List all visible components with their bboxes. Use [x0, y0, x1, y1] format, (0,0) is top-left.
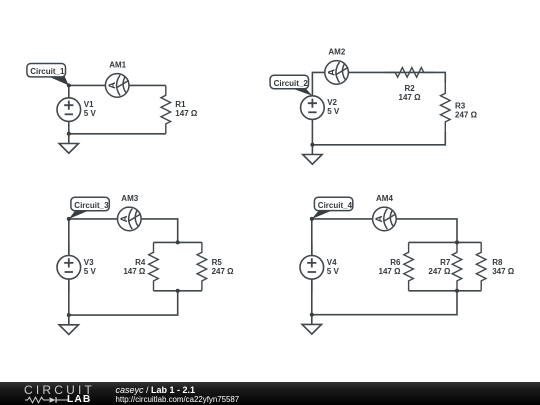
ground circuit 3 [59, 315, 78, 334]
svg-text:5 V: 5 V [327, 107, 340, 116]
svg-text:R7: R7 [440, 258, 451, 267]
svg-text:R6: R6 [390, 258, 401, 267]
wire bottom rail circuit 3 [69, 291, 178, 315]
wire top rail circuit 2 [312, 72, 445, 83]
svg-text:R3: R3 [455, 101, 466, 110]
svg-text:5 V: 5 V [84, 267, 97, 276]
svg-text:Circuit_3: Circuit_3 [74, 201, 109, 210]
wire top rail circuit 1 [69, 84, 166, 86]
svg-text:V3: V3 [84, 258, 94, 267]
CircuitLab logo schematic squiggle (resistor + diode) [24, 396, 70, 404]
wire left branch circuit 4 [311, 219, 313, 315]
wire bottom rail circuit 1 [69, 133, 166, 135]
svg-text:Circuit_4: Circuit_4 [318, 201, 353, 210]
node label Circuit_4 [312, 197, 353, 219]
svg-text:Circuit_1: Circuit_1 [30, 67, 65, 76]
ground circuit 2 [303, 145, 322, 164]
svg-text:5 V: 5 V [84, 109, 97, 118]
svg-text:147 Ω: 147 Ω [175, 109, 198, 118]
node junction parallel bottom circuit 3 [176, 289, 180, 293]
node junction parallel top circuit 4 [455, 240, 459, 244]
node junction parallel top circuit 3 [176, 240, 180, 244]
ground circuit 4 [302, 315, 321, 334]
wire parallel bottom rail circuit 4 [409, 290, 482, 292]
node junction circuit 4 bottom [310, 313, 314, 317]
svg-text:AM3: AM3 [121, 194, 138, 203]
svg-text:147 Ω: 147 Ω [123, 267, 146, 276]
svg-text:R5: R5 [212, 258, 223, 267]
CircuitLab logo wordmark CIRCUIT [24, 385, 95, 396]
node junction circuit 1 top [67, 83, 71, 87]
node junction circuit 4 top [310, 217, 314, 221]
node label Circuit_3 [69, 197, 110, 219]
node junction circuit 1 bottom [67, 132, 71, 136]
svg-text:AM1: AM1 [109, 60, 126, 69]
footer bar [0, 382, 540, 405]
svg-text:R8: R8 [492, 258, 503, 267]
wire parallel top rail circuit 4 [409, 241, 482, 243]
wire bottom rail circuit 4 [312, 291, 457, 315]
wire bottom rail circuit 2 [312, 132, 445, 145]
resistor R1 [161, 85, 171, 133]
ammeter AM1 [105, 74, 129, 98]
node junction circuit 3 top [67, 217, 71, 221]
svg-text:347 Ω: 347 Ω [492, 267, 515, 276]
svg-text:247 Ω: 247 Ω [428, 267, 451, 276]
resistor R4 [149, 242, 159, 290]
voltage source V1 [57, 85, 81, 133]
node junction circuit 2 bottom [310, 143, 314, 147]
wire parallel bottom rail circuit 3 [154, 290, 202, 292]
voltage source V3 [57, 243, 81, 291]
svg-text:V4: V4 [327, 258, 337, 267]
ammeter AM4 [373, 207, 397, 231]
resistor R6 [404, 242, 414, 290]
node label Circuit_2 [270, 75, 312, 95]
svg-text:5 V: 5 V [327, 267, 340, 276]
svg-text:AM2: AM2 [328, 47, 345, 56]
ammeter AM3 [118, 207, 142, 231]
svg-text:R4: R4 [135, 258, 146, 267]
node label Circuit_1 [27, 64, 69, 86]
svg-text:247 Ω: 247 Ω [455, 110, 478, 119]
svg-text:V1: V1 [84, 100, 94, 109]
svg-text:R1: R1 [175, 100, 186, 109]
resistor R3 [441, 83, 451, 131]
ground circuit 1 [59, 134, 78, 153]
svg-text:147 Ω: 147 Ω [379, 267, 402, 276]
svg-text:V2: V2 [327, 98, 337, 107]
svg-text:R2: R2 [405, 84, 416, 93]
voltage source V4 [300, 243, 324, 291]
wire top rail circuit 3 [69, 219, 178, 243]
footer title: caseyc / Lab 1 - 2.1 [116, 386, 196, 396]
wire left branch circuit 3 [68, 219, 70, 315]
wire parallel top rail circuit 3 [154, 241, 202, 243]
resistor R7 [452, 242, 462, 290]
ammeter AM2 [325, 61, 349, 85]
node junction parallel bottom circuit 4 [455, 289, 459, 293]
CircuitLab logo wordmark LAB [67, 395, 91, 404]
svg-text:147 Ω: 147 Ω [399, 93, 422, 102]
resistor R2 [385, 68, 433, 78]
svg-text:AM4: AM4 [376, 194, 393, 203]
wire top rail circuit 4 [312, 219, 457, 243]
resistor R5 [197, 242, 207, 290]
voltage source V2 [301, 83, 325, 131]
node junction circuit 3 bottom [67, 313, 71, 317]
svg-text:Circuit_2: Circuit_2 [274, 79, 309, 88]
svg-text:247 Ω: 247 Ω [212, 267, 235, 276]
footer url [116, 395, 240, 404]
resistor R8 [476, 242, 486, 290]
